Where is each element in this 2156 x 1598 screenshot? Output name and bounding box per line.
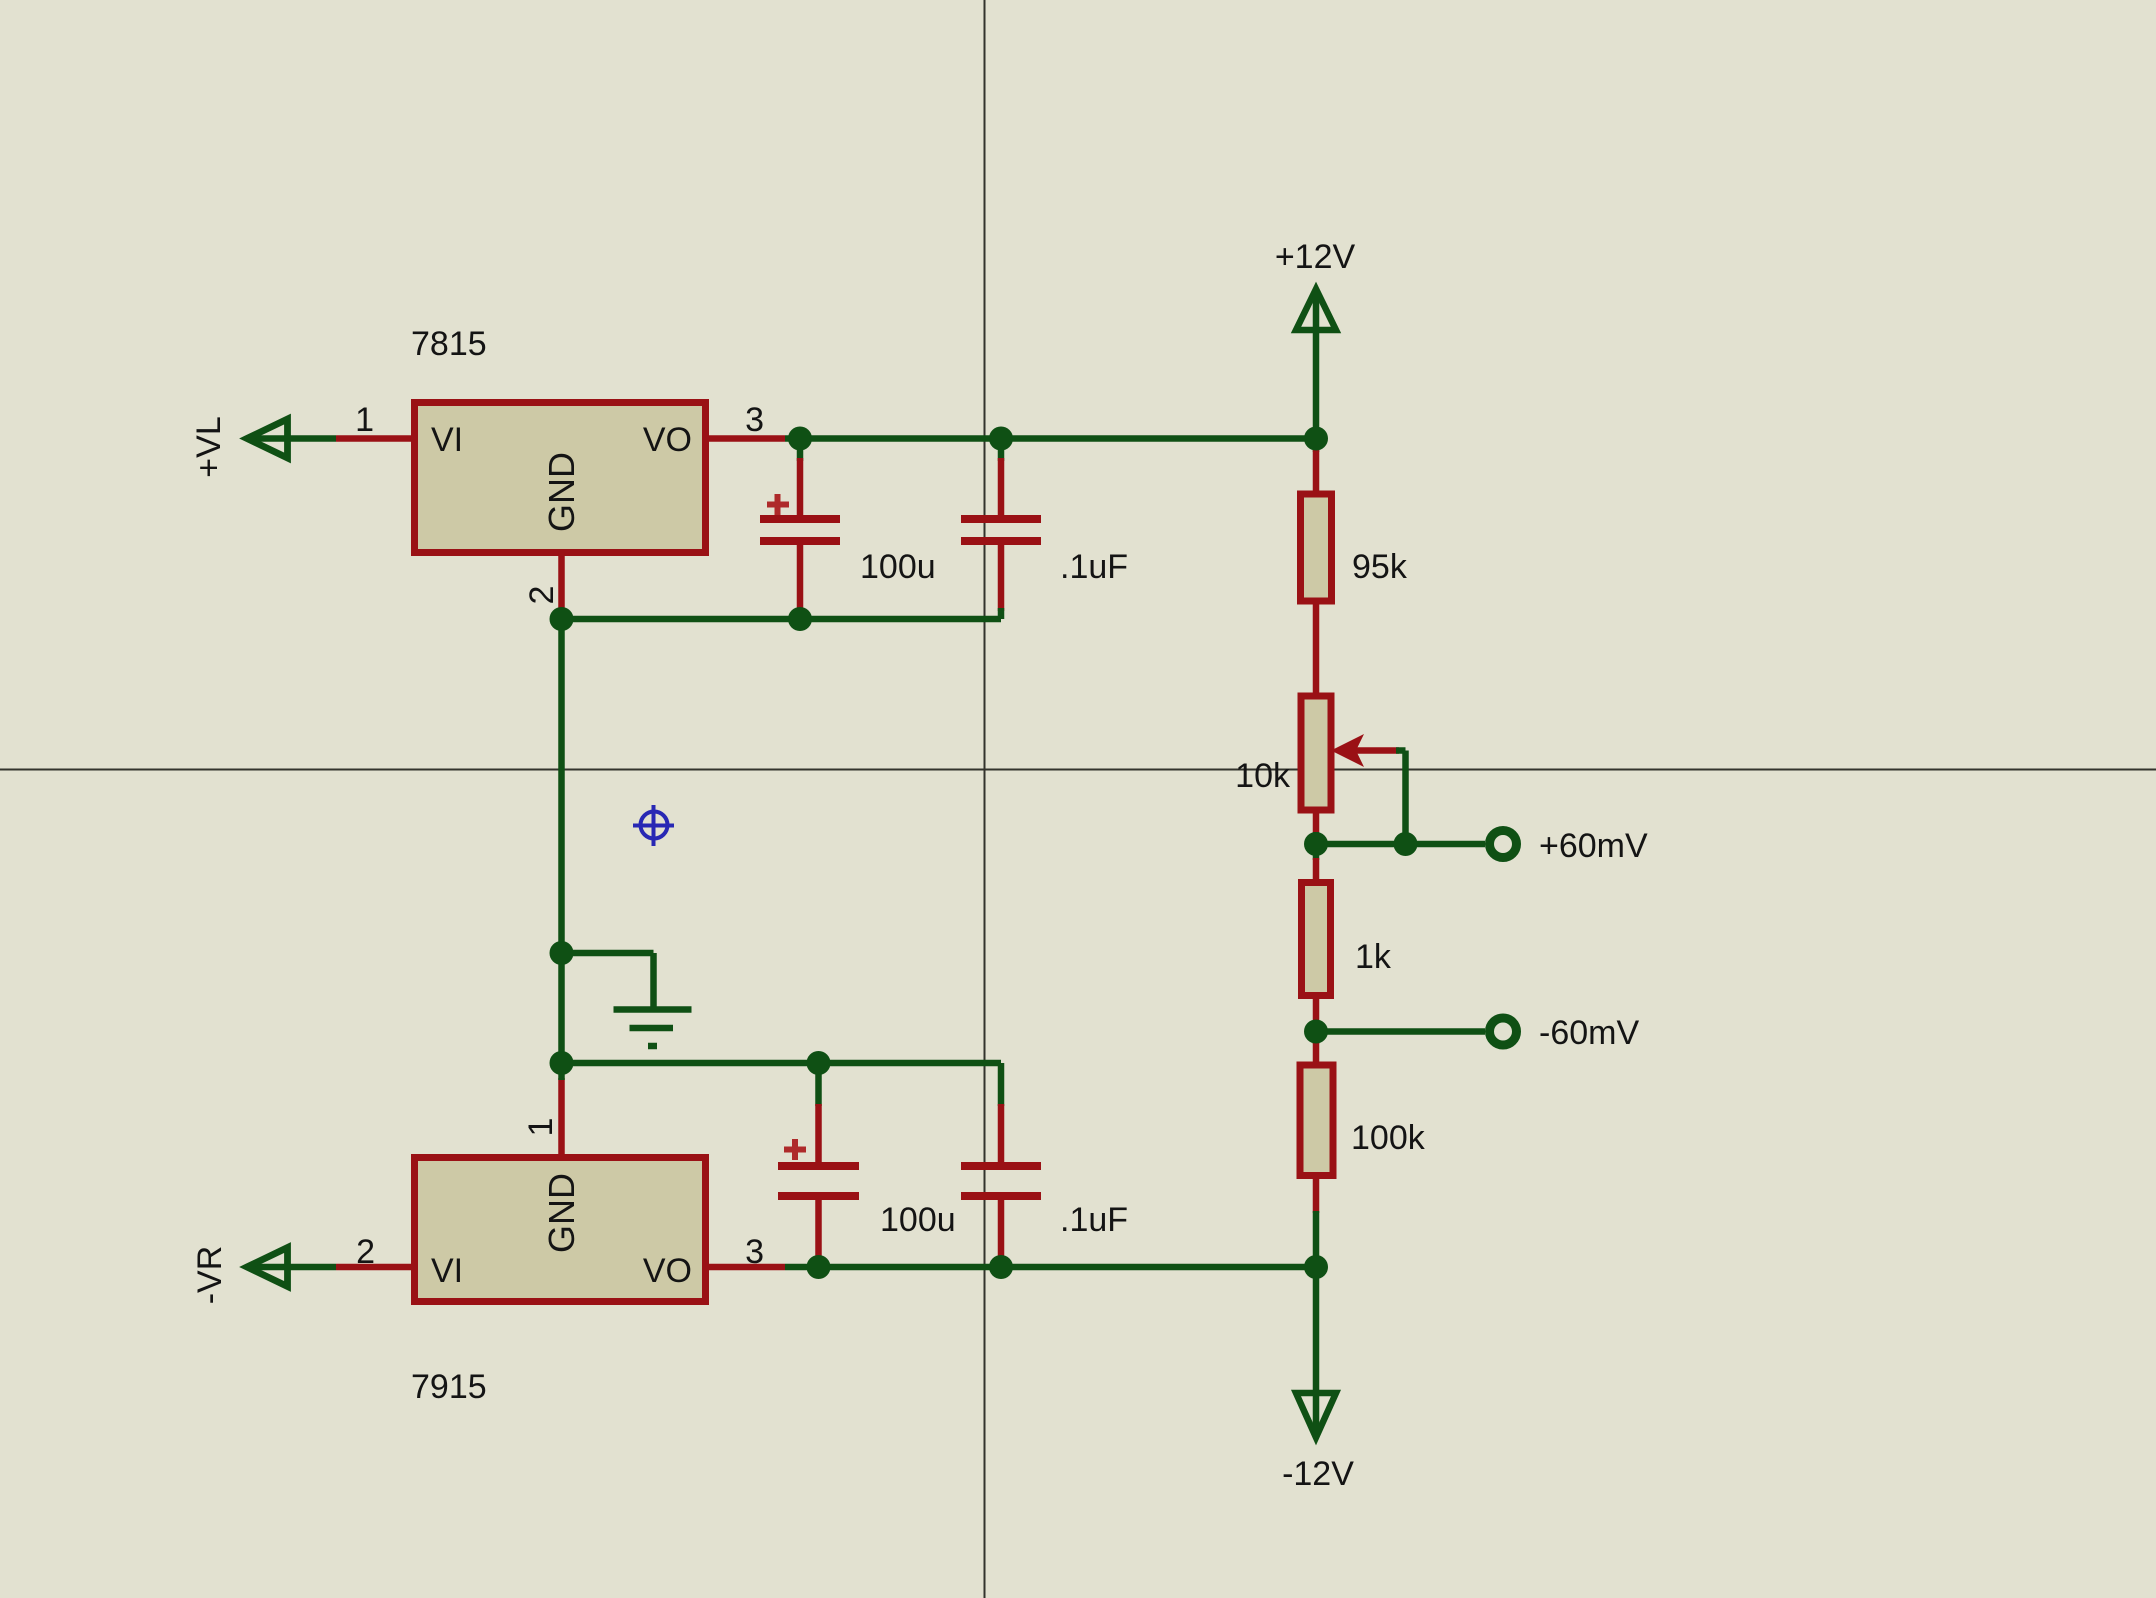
terminal +60mV xyxy=(1490,827,1648,865)
regulator U2 7915 body xyxy=(411,1158,706,1407)
svg-text:VO: VO xyxy=(643,1252,692,1290)
regulator U1 7815 body xyxy=(411,325,706,553)
resistor R2 1k xyxy=(1302,844,1392,1032)
svg-text:2: 2 xyxy=(523,586,561,605)
U2 pin 3 (VO) wire xyxy=(709,1233,785,1271)
potentiometer RV1 10k xyxy=(1235,696,1405,844)
svg-text:VO: VO xyxy=(643,421,692,459)
junction dot C1 bottom (800,619) xyxy=(788,607,812,631)
wire: -15V rail bottom horizontal y=1267 xyxy=(785,1264,1316,1271)
svg-text:3: 3 xyxy=(745,401,764,439)
resistor R1 95k xyxy=(1301,438,1408,693)
wire: GND vertical trunk x=561.5 xyxy=(558,619,565,1063)
svg-text:GND: GND xyxy=(541,1173,582,1253)
node wire -60mV y=1031.5 xyxy=(1316,1028,1485,1035)
svg-text:1: 1 xyxy=(522,1118,560,1137)
capacitor C2 .1uF xyxy=(961,438,1128,619)
junction dot U2 pin1 (561,1063) xyxy=(550,1051,574,1075)
junction dot C3 top (819,1063) xyxy=(807,1051,831,1075)
wire: GND horizontal above 7915 y=1063 xyxy=(562,1060,1002,1067)
RV1 wiper arrow xyxy=(1331,734,1364,767)
svg-text:VI: VI xyxy=(431,421,463,459)
svg-text:100u: 100u xyxy=(880,1201,956,1239)
junction dot C4 bottom (1001,1267) xyxy=(989,1255,1013,1279)
resistor R3 100k xyxy=(1300,1032,1426,1268)
junction dot +60mV rail (1316,844) xyxy=(1304,832,1328,856)
power terminal +12V xyxy=(1275,238,1356,438)
U1 pin 2 (GND) wire xyxy=(523,553,562,619)
svg-text:.1uF: .1uF xyxy=(1060,548,1128,586)
U2 pin 2 (VI) wire xyxy=(336,1233,411,1271)
svg-text:1k: 1k xyxy=(1355,938,1392,976)
U1 pin 3 (VO) wire xyxy=(709,401,785,439)
svg-text:1: 1 xyxy=(355,401,374,439)
junction dot -60mV rail (1316,1031.5) xyxy=(1304,1020,1328,1044)
ground symbol xyxy=(562,953,692,1046)
node wire +60mV y=844 xyxy=(1316,841,1485,848)
junction dot GND pin2 (561,619) xyxy=(550,607,574,631)
svg-text:2: 2 xyxy=(356,1233,375,1271)
svg-text:VI: VI xyxy=(431,1252,463,1290)
svg-text:-12V: -12V xyxy=(1282,1455,1354,1493)
svg-text:-VR: -VR xyxy=(191,1246,229,1305)
svg-text:100k: 100k xyxy=(1351,1119,1426,1157)
svg-text:GND: GND xyxy=(541,452,582,532)
svg-text:.1uF: .1uF xyxy=(1060,1201,1128,1239)
terminal -60mV xyxy=(1490,1014,1640,1052)
svg-text:+12V: +12V xyxy=(1275,238,1356,276)
svg-text:7915: 7915 xyxy=(411,1368,487,1406)
wire: +15V rail top horizontal (VO 7815 to +12V rail) y=438 xyxy=(785,435,1316,442)
terminal -VR xyxy=(191,1246,336,1305)
svg-text:+VL: +VL xyxy=(190,416,228,477)
junction dot C3 bottom (818,1267) xyxy=(807,1255,831,1279)
sheet divider vertical line xyxy=(984,0,986,1598)
svg-text:-60mV: -60mV xyxy=(1539,1014,1639,1052)
svg-text:95k: 95k xyxy=(1352,548,1408,586)
capacitor C1 100u (polarized) xyxy=(760,438,936,619)
svg-text:10k: 10k xyxy=(1235,757,1291,795)
junction dot VO-C1 (800,438) xyxy=(788,427,812,451)
terminal +VL xyxy=(190,416,336,477)
svg-text:100u: 100u xyxy=(860,548,936,586)
wire: GND horizontal below 7815 y=619 xyxy=(562,616,1002,623)
U1 pin 1 (VI) wire xyxy=(336,401,411,439)
svg-text:7815: 7815 xyxy=(411,325,487,363)
junction dot C2 top (1001,438) xyxy=(989,427,1013,451)
svg-text:+60mV: +60mV xyxy=(1539,827,1648,865)
U2 pin 1 (GND) wire xyxy=(522,1063,562,1154)
svg-text:3: 3 xyxy=(745,1233,764,1271)
sheet divider horizontal line xyxy=(0,769,2156,771)
capacitor C3 100u (polarized, bottom) xyxy=(778,1063,956,1267)
power terminal -12V xyxy=(1282,1267,1354,1493)
junction dot -12V rail (1316,1267) xyxy=(1304,1255,1328,1279)
junction dot +12V rail (1316,438) xyxy=(1304,427,1328,451)
origin marker xyxy=(633,805,674,846)
junction dot ground branch (561,953) xyxy=(550,941,574,965)
junction dot wiper node (1405,844) xyxy=(1394,832,1418,856)
capacitor C4 .1uF (bottom) xyxy=(961,1063,1128,1267)
